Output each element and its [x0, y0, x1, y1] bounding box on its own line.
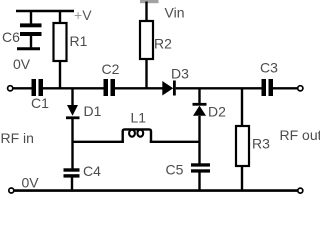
resistor R2: [140, 21, 153, 59]
svg-text:R3: R3: [252, 136, 270, 152]
wire R2 bottom stem: [145, 59, 147, 88]
svg-text:C2: C2: [102, 61, 120, 77]
svg-text:0V: 0V: [22, 175, 40, 191]
svg-text:R1: R1: [70, 33, 88, 49]
capacitor C6: [20, 23, 42, 27]
wire top +V rail: [16, 10, 74, 12]
capacitor C1: [32, 79, 37, 96]
resistor R1: [54, 23, 67, 61]
wire L1 left line: [73, 141, 124, 143]
node bottom-right terminal circle: [298, 188, 303, 193]
svg-text:RF out: RF out: [280, 127, 320, 143]
svg-text:D3: D3: [171, 66, 189, 82]
capacitor C2: [104, 79, 109, 96]
wire R3 bottom stem: [241, 166, 243, 191]
wire C4 bottom stem: [71, 178, 73, 191]
wire C6 bottom stem: [30, 36, 32, 48]
svg-text:+V: +V: [74, 7, 92, 23]
wire C3 to output: [273, 87, 298, 89]
wire R1 bottom stem: [59, 61, 61, 88]
diode D2: [193, 103, 207, 106]
svg-text:C5: C5: [166, 162, 184, 178]
diode D3: [162, 81, 173, 96]
resistor R3: [236, 126, 249, 166]
wire D2 bottom stem through L1 junction to C5: [198, 116, 200, 164]
wire bottom 0V rail: [14, 189, 298, 192]
wire input to C1: [13, 87, 32, 89]
svg-text:R2: R2: [154, 36, 172, 52]
wire C2 to D3: [115, 87, 163, 89]
wire R2 top stem: [145, 2, 147, 23]
node RF out terminal circle: [298, 86, 303, 91]
wire R3 top stem: [241, 88, 243, 127]
svg-text:C1: C1: [31, 95, 49, 111]
inductor L1: [123, 129, 151, 142]
wire D1 bottom stem to L1 line and C4: [71, 119, 73, 169]
node Vin terminal bar: [140, 0, 159, 3]
wire C5 bottom stem: [198, 173, 200, 191]
wire L1 right line: [150, 141, 200, 143]
svg-text:D1: D1: [84, 103, 102, 119]
node RF in terminal circle: [8, 86, 13, 91]
svg-text:0V: 0V: [13, 56, 31, 72]
svg-text:D2: D2: [208, 104, 226, 120]
capacitor C5: [191, 163, 210, 166]
wire R1 top stem: [59, 11, 61, 24]
capacitor C4: [64, 168, 80, 171]
capacitor C3: [262, 79, 267, 96]
wire C6 top stem: [30, 11, 32, 25]
node bottom-left terminal circle: [9, 188, 14, 193]
diode D1: [67, 105, 78, 116]
wire D1 top stem: [71, 88, 73, 105]
wire D2 top stem: [198, 88, 200, 104]
svg-text:RF in: RF in: [1, 130, 34, 146]
svg-text:C3: C3: [260, 60, 278, 76]
svg-text:C6: C6: [2, 29, 20, 45]
svg-text:L1: L1: [131, 110, 147, 126]
wire D3 to C3: [176, 87, 262, 89]
svg-text:C4: C4: [83, 163, 101, 179]
node 0V terminal bar of C6: [17, 47, 40, 50]
svg-text:Vin: Vin: [165, 5, 185, 21]
wire C1 to C2: [43, 87, 104, 89]
